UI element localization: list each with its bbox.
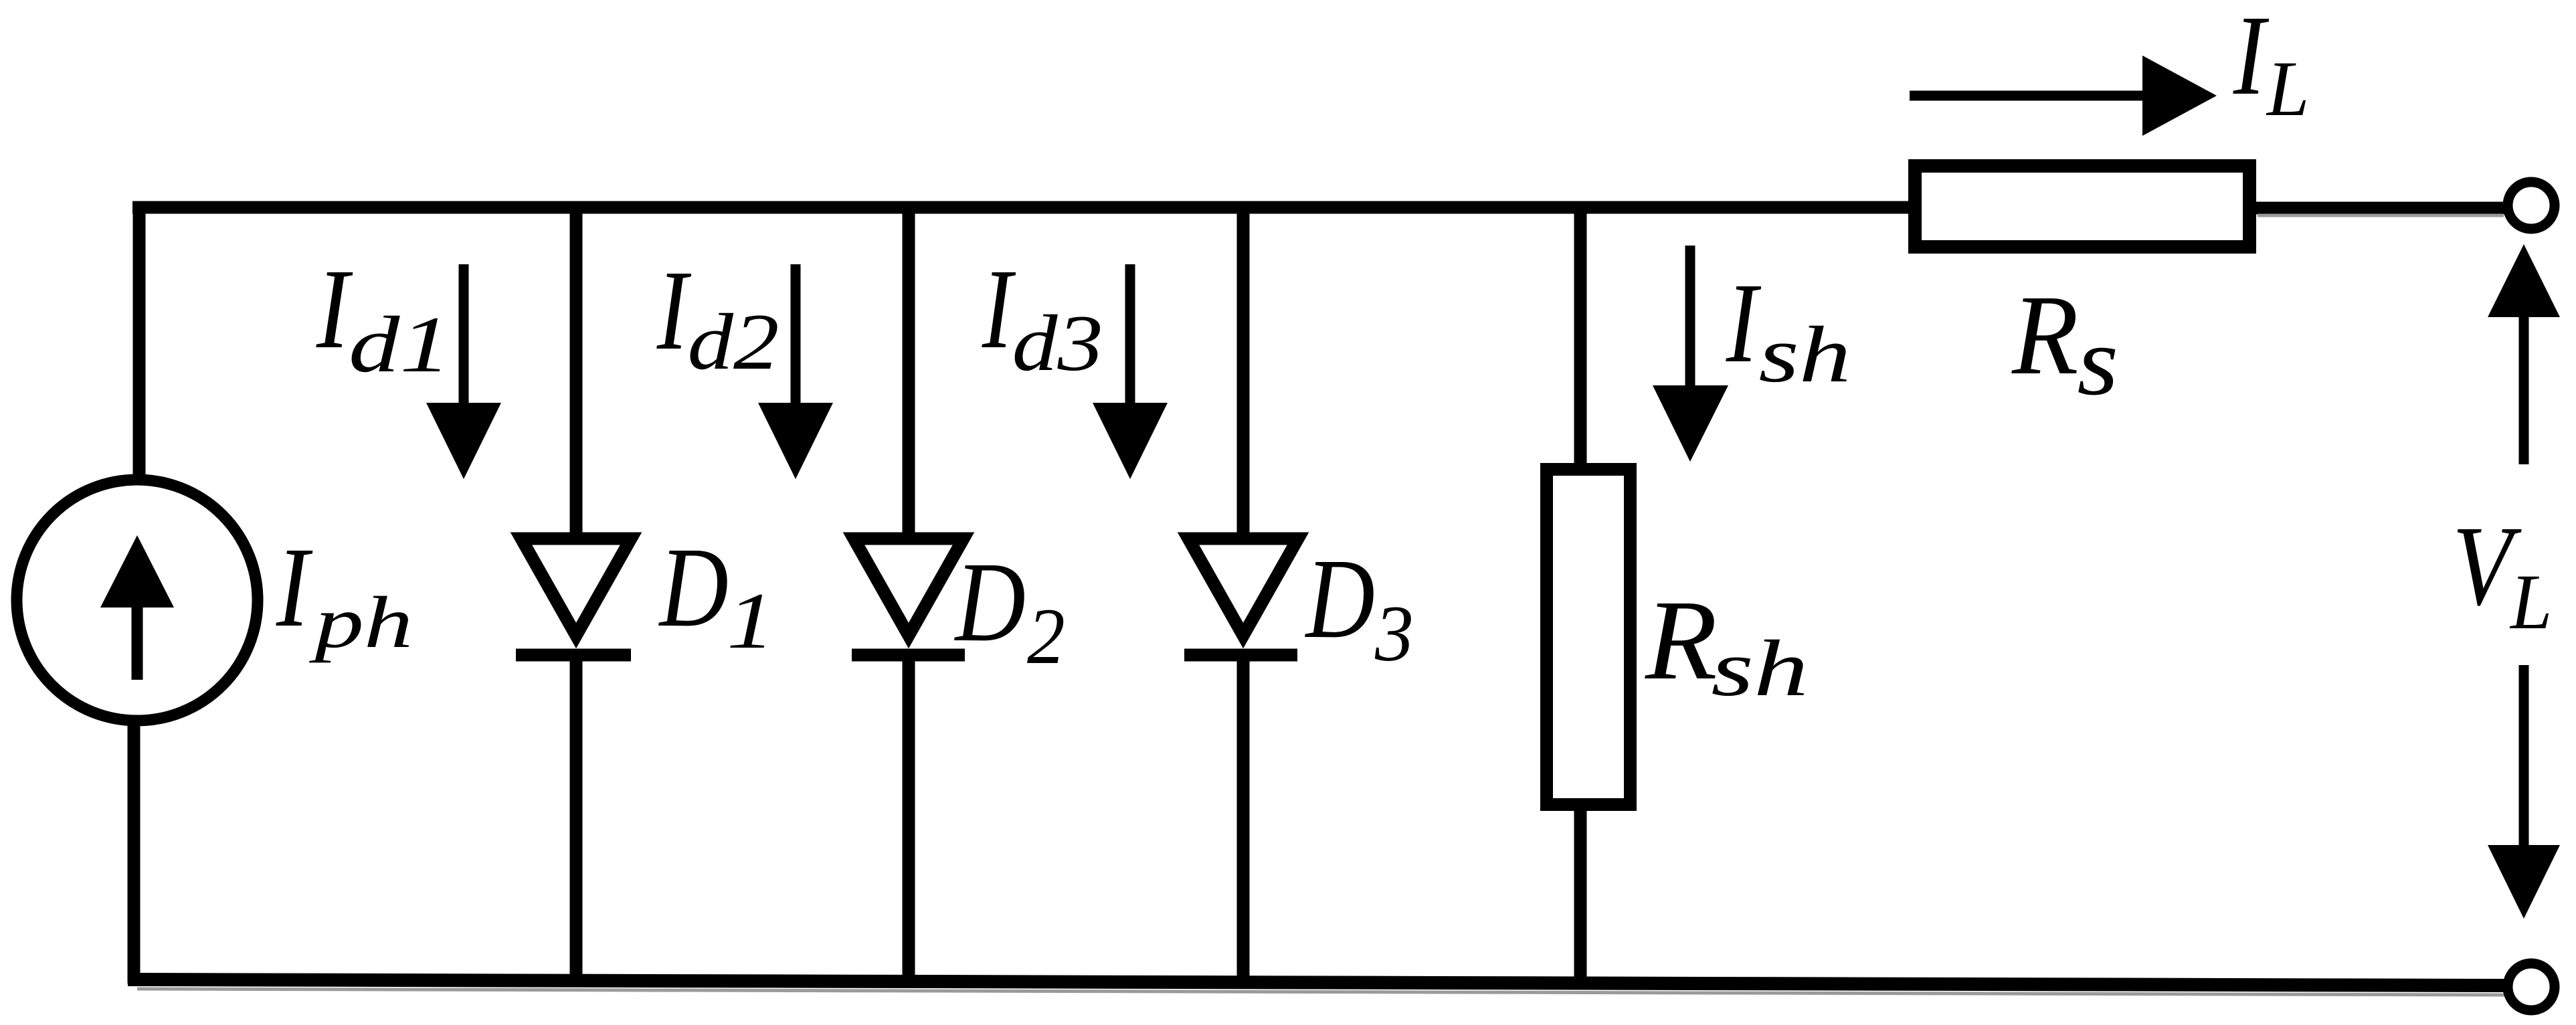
svg-text:I: I bbox=[316, 246, 353, 373]
current arrow Id3 bbox=[1125, 264, 1135, 409]
voltage arrow VL down shaft bbox=[2519, 665, 2529, 850]
current source arrow (up) bbox=[132, 605, 143, 680]
wire bottom rail (node B: return bus) bbox=[128, 980, 2508, 986]
diode D3 triangle bbox=[1188, 539, 1298, 636]
svg-text:I: I bbox=[656, 246, 691, 373]
wire top-right segment (Rs to terminal) bbox=[2251, 202, 2508, 215]
wire below current source bbox=[128, 725, 141, 984]
svg-text:d3: d3 bbox=[1012, 298, 1103, 387]
terminal node + (top right) bbox=[2508, 182, 2555, 229]
wire D2 cathode drop bbox=[903, 655, 915, 984]
voltage arrow VL up head bbox=[2488, 244, 2560, 317]
wire top rail (node A: photocurrent bus) bbox=[132, 201, 1915, 214]
wire D1 cathode drop bbox=[570, 655, 583, 984]
wire D2 anode drop bbox=[903, 201, 915, 539]
diode D1 triangle bbox=[521, 539, 631, 636]
wire D1 anode drop bbox=[570, 201, 583, 539]
terminal node - (bottom right) bbox=[2508, 963, 2555, 1010]
svg-text:L: L bbox=[2509, 557, 2552, 645]
svg-text:1: 1 bbox=[727, 576, 774, 666]
voltage arrow VL down head bbox=[2488, 845, 2560, 919]
svg-text:D: D bbox=[1305, 536, 1375, 662]
current source U1 circle (Iph) bbox=[17, 480, 258, 721]
wire gray fringe under top-right segment bbox=[2258, 214, 2504, 217]
svg-text:d2: d2 bbox=[687, 297, 779, 386]
diode D1 cathode bar bbox=[516, 649, 631, 662]
svg-text:I: I bbox=[276, 525, 313, 651]
current arrow IL bbox=[1910, 91, 2145, 101]
svg-text:R: R bbox=[1645, 576, 1718, 703]
resistor Rsh body bbox=[1547, 470, 1631, 805]
svg-text:ph: ph bbox=[308, 581, 413, 663]
svg-text:s: s bbox=[2077, 307, 2118, 415]
wire D3 anode drop bbox=[1237, 201, 1250, 539]
svg-text:I: I bbox=[982, 246, 1016, 372]
svg-text:D: D bbox=[954, 539, 1026, 665]
resistor Rs body bbox=[1915, 166, 2249, 247]
svg-text:3: 3 bbox=[1374, 589, 1414, 678]
svg-text:sh: sh bbox=[1711, 624, 1809, 713]
svg-text:2: 2 bbox=[1027, 592, 1065, 681]
svg-text:R: R bbox=[2011, 272, 2079, 398]
wire D3 cathode drop bbox=[1237, 655, 1250, 984]
voltage arrow VL up shaft bbox=[2519, 313, 2529, 464]
current arrow Ish bbox=[1685, 246, 1695, 392]
svg-text:I: I bbox=[1726, 259, 1762, 386]
wire left drop (top rail to current source) bbox=[133, 201, 146, 476]
diode D2 triangle bbox=[854, 539, 963, 636]
svg-text:D: D bbox=[658, 525, 729, 651]
current arrow Id2 bbox=[791, 264, 801, 409]
svg-text:L: L bbox=[2266, 45, 2309, 132]
current arrow Id1 bbox=[459, 264, 469, 409]
wire Rsh bottom drop bbox=[1574, 810, 1587, 984]
diode D2 cathode bar bbox=[852, 649, 965, 662]
diode D3 cathode bar bbox=[1184, 649, 1297, 662]
svg-text:I: I bbox=[2233, 0, 2270, 119]
svg-text:sh: sh bbox=[1758, 310, 1851, 399]
wire gray fringe under bottom rail bbox=[137, 989, 2505, 995]
wire Rsh top drop bbox=[1574, 201, 1587, 468]
svg-text:d1: d1 bbox=[349, 300, 451, 389]
